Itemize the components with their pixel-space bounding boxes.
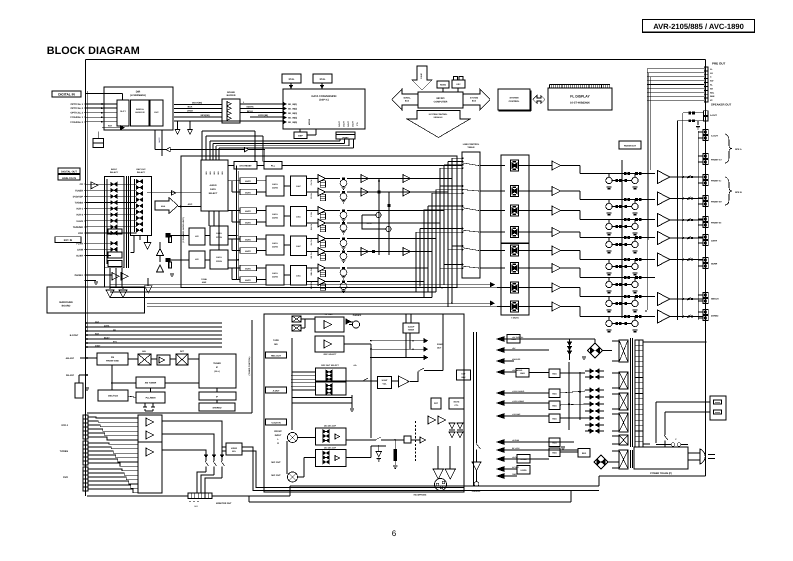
wire loopback right bbox=[249, 150, 265, 162]
wire matrix vertical 10 bbox=[415, 232, 417, 292]
jack video TV/DBS-1 bbox=[83, 441, 88, 445]
switch sel1-3 bbox=[111, 195, 114, 199]
buffer tuner in bbox=[172, 191, 176, 196]
wire lpf outs bbox=[228, 234, 237, 236]
wire channel hookup 3 bbox=[414, 210, 444, 212]
diode stack vertical bbox=[568, 342, 572, 346]
transformer secondary winding 4 bbox=[619, 413, 628, 432]
svg-text:(DSP IC): (DSP IC) bbox=[319, 99, 329, 102]
wire reg-diode links bbox=[560, 372, 585, 374]
svg-text:CHASSIS: CHASSIS bbox=[472, 490, 481, 493]
amp post-dac FL bbox=[318, 175, 326, 183]
wire audio bus 1 bbox=[110, 284, 494, 286]
core power trans bbox=[630, 450, 632, 468]
wire table stub 12 bbox=[452, 245, 463, 247]
svg-text:LRCK: LRCK bbox=[187, 110, 193, 113]
wire aout loop b bbox=[677, 120, 703, 122]
mixer 2 bbox=[176, 354, 188, 365]
wire relay row 5 bbox=[600, 259, 655, 261]
wire driver out 7 bbox=[561, 287, 580, 289]
wire zone riser bbox=[442, 314, 444, 371]
svg-text:CONV: CONV bbox=[216, 260, 223, 263]
terminal speaker group 2 bbox=[703, 154, 708, 159]
wire power rail +B SUB bbox=[504, 441, 569, 443]
svg-text:AM ANT: AM ANT bbox=[66, 357, 75, 360]
svg-text:SYSTEM CONTROL: SYSTEM CONTROL bbox=[429, 113, 448, 116]
svg-text:SPK B: SPK B bbox=[735, 191, 742, 194]
wire video route TV/DBS-1 bbox=[88, 443, 138, 444]
jack AC outlet top bbox=[704, 111, 709, 116]
wire bridge1 wires bbox=[603, 350, 613, 352]
wire table stub 5 bbox=[440, 185, 463, 187]
wire power rail +/-12V VIDEO bbox=[504, 402, 549, 404]
switch sel1-6 bbox=[111, 213, 114, 217]
wire analog input VCR-2 bbox=[85, 214, 87, 216]
plug AC inlet bbox=[688, 452, 700, 454]
svg-text:DAC: DAC bbox=[296, 185, 301, 188]
relay contact b row 2 bbox=[635, 198, 638, 201]
switch hp mode bbox=[346, 439, 375, 441]
wire eeprom link bbox=[299, 129, 301, 132]
wire control bus CE bbox=[86, 330, 88, 332]
tri down v1 bbox=[147, 236, 149, 243]
block regulator col 1 bbox=[549, 369, 560, 378]
buffer gate 3 bbox=[227, 111, 231, 116]
wire secondary leads 4 bbox=[612, 413, 619, 415]
amp post vol bbox=[399, 376, 409, 387]
block input selector SW2 bbox=[131, 177, 152, 236]
relay coil right row 3 bbox=[632, 223, 638, 229]
wire ctl bus 5 bbox=[202, 130, 255, 132]
terminal speaker group 4 bbox=[703, 196, 708, 201]
relay contact a row 8 bbox=[624, 315, 627, 318]
diode pair 3 bbox=[590, 388, 594, 392]
label audio out box bbox=[266, 387, 287, 393]
switch sel1-8 bbox=[111, 225, 114, 229]
arrow DIR reset bbox=[121, 126, 125, 130]
wire primary bottom lead bbox=[643, 443, 650, 445]
connector monitor strip bbox=[188, 493, 212, 499]
wire channel SBL a bbox=[307, 267, 318, 269]
arrow power rail AC DET bbox=[497, 467, 504, 472]
block PLL memory bbox=[136, 392, 165, 403]
label vaux box bbox=[266, 419, 287, 425]
amp driver row 3 bbox=[552, 206, 561, 215]
svg-text:SBACK: SBACK bbox=[711, 298, 719, 301]
diode pair 2 bbox=[590, 375, 594, 379]
svg-text:SDI: SDI bbox=[217, 171, 220, 175]
block DIR output latch bbox=[150, 100, 163, 126]
tri down v4 bbox=[147, 278, 149, 286]
svg-text:SBL: SBL bbox=[710, 91, 715, 94]
arrow control down big bbox=[407, 111, 470, 138]
wire relay lower row 1 bbox=[612, 180, 632, 182]
amp phono EQ bbox=[91, 182, 98, 189]
svg-text:REC OUT: REC OUT bbox=[271, 355, 282, 358]
relay coil right row 5 bbox=[632, 263, 638, 269]
wire ctl bus 4 bbox=[219, 147, 354, 149]
jack video TV/DBS-2 bbox=[83, 445, 88, 449]
svg-text:MUTE: MUTE bbox=[245, 221, 251, 224]
jack video DVD-4 bbox=[83, 479, 88, 483]
wire channel SL a bbox=[307, 238, 318, 240]
wire bridge2 wires bbox=[608, 461, 619, 463]
svg-text:CNTR: CNTR bbox=[711, 240, 717, 243]
arrow down hollow 2 bbox=[189, 121, 191, 129]
resistor r-hp bbox=[394, 449, 397, 461]
wire driver out 8 bbox=[561, 306, 580, 308]
wire trans bottom bbox=[599, 475, 706, 477]
block analog board frame bbox=[264, 314, 464, 492]
svg-text:MIC OUT: MIC OUT bbox=[271, 474, 281, 477]
svg-text:+/-12V VIDEO: +/-12V VIDEO bbox=[512, 400, 525, 403]
svg-text:SELECT: SELECT bbox=[209, 192, 218, 195]
model label box AVR-2105/885/AVC-1890 bbox=[643, 20, 755, 33]
block mute-if 1 bbox=[240, 178, 257, 184]
wire power rail +5V MICRO bbox=[504, 371, 516, 373]
wire recout feeds bbox=[292, 371, 316, 373]
mic circle 1 bbox=[288, 433, 298, 443]
arrow power rail +9V bbox=[497, 348, 504, 353]
jack video VCR-1-5 bbox=[83, 431, 88, 435]
svg-text:SERIAL: SERIAL bbox=[403, 97, 411, 100]
svg-text:STEREO: STEREO bbox=[213, 407, 222, 410]
svg-text:REMO: REMO bbox=[440, 84, 446, 87]
wire ps junction vertical b bbox=[579, 372, 581, 420]
block prot 2 bbox=[449, 398, 464, 409]
mute block row 2 bbox=[511, 186, 519, 197]
wire table stub 15 bbox=[440, 267, 463, 269]
wire DIR reset line bbox=[102, 127, 121, 129]
svg-text:(TUNER CONTROL): (TUNER CONTROL) bbox=[248, 356, 251, 375]
wire buffer to DSP row2 bbox=[240, 108, 283, 110]
wire control bus BUSY bbox=[86, 338, 88, 340]
jack pre-out FR bbox=[704, 71, 708, 75]
relay contact a row 7 bbox=[624, 295, 627, 298]
wire power out row 5 bbox=[671, 259, 704, 261]
svg-text:BUSY: BUSY bbox=[104, 336, 110, 339]
wire ctl drop right b bbox=[262, 136, 264, 162]
transformer secondary winding 1 bbox=[619, 340, 628, 362]
relay coil left row 3 bbox=[606, 223, 612, 229]
switch table 4 bbox=[463, 230, 479, 232]
crystal X202 bbox=[313, 74, 332, 83]
wire power rail +9V bbox=[504, 349, 549, 351]
svg-text:ANALOG IN: ANALOG IN bbox=[62, 177, 76, 180]
svg-text:MUTE: MUTE bbox=[245, 238, 251, 241]
transformer secondary winding 2 bbox=[619, 372, 628, 389]
attenuator SR bbox=[320, 254, 325, 261]
switch sel1-1 bbox=[111, 182, 114, 186]
wire bus to mute 8 bbox=[497, 306, 511, 308]
wire left border bbox=[85, 59, 87, 496]
wire pre-out line SBL bbox=[647, 91, 704, 93]
gnd aout bbox=[697, 121, 699, 125]
wire table to mute 1 bbox=[480, 165, 505, 167]
svg-text:SD_IN(3): SD_IN(3) bbox=[288, 112, 297, 115]
wire matrix vertical 8 bbox=[423, 210, 425, 298]
jack video TV/DBS-5 bbox=[83, 457, 88, 461]
svg-text:COAXIAL 2: COAXIAL 2 bbox=[70, 121, 83, 124]
switch post-vol bbox=[418, 370, 420, 372]
svg-text:C/SW: C/SW bbox=[77, 248, 84, 251]
svg-text:SLEEP: SLEEP bbox=[408, 326, 415, 329]
svg-text:INPUT: INPUT bbox=[111, 168, 118, 171]
jack pre-out SR bbox=[704, 87, 708, 91]
amp power output row 3 bbox=[658, 214, 670, 227]
jack lpf b bbox=[166, 258, 171, 262]
jack video DVD-5 bbox=[83, 483, 88, 487]
jack lpf a bbox=[166, 233, 171, 237]
svg-text:CDR: CDR bbox=[78, 232, 83, 235]
block lpf pair b1 bbox=[189, 251, 205, 268]
amp post-dac C bbox=[318, 207, 326, 215]
wire mid-frame to power bus a bbox=[464, 485, 599, 487]
buffer pair a bbox=[112, 273, 119, 281]
relay contact out row 4 bbox=[688, 237, 690, 239]
component antenna balun bbox=[75, 383, 83, 398]
svg-text:SR CH: SR CH bbox=[310, 252, 313, 259]
arrow power rail RY +12V bbox=[497, 448, 504, 453]
wire primary top lead bbox=[643, 341, 706, 343]
capacitor phono a bbox=[169, 237, 172, 243]
svg-text:DAC: DAC bbox=[296, 216, 301, 219]
svg-text:HP AMP: HP AMP bbox=[325, 313, 334, 316]
svg-text:FRONT END: FRONT END bbox=[106, 360, 119, 363]
wire tuner links bbox=[111, 365, 113, 390]
wire table stub 9 bbox=[424, 209, 463, 211]
switch chassis bbox=[476, 443, 478, 445]
svg-text:EXT. IN: EXT. IN bbox=[64, 239, 73, 242]
svg-text:TAPE/MD: TAPE/MD bbox=[73, 226, 84, 229]
svg-text:SDI: SDI bbox=[209, 171, 212, 175]
switch sel2-2 bbox=[136, 186, 139, 190]
jack video DVD-3 bbox=[83, 475, 88, 479]
buffer gate 2 bbox=[227, 106, 231, 111]
gnd phono bbox=[85, 280, 87, 282]
relay coil left row 8 bbox=[606, 320, 612, 326]
block surround board bbox=[47, 287, 145, 313]
svg-text:FRONT B+: FRONT B+ bbox=[711, 201, 723, 204]
relay contact b row 1 bbox=[635, 172, 638, 175]
wire relay row 1 bbox=[600, 173, 655, 175]
svg-text:SBL CH: SBL CH bbox=[310, 268, 313, 276]
wire channel C b bbox=[347, 210, 414, 212]
wire tuner audio in bbox=[147, 192, 201, 194]
wire left border inner bbox=[86, 91, 88, 330]
amp driver row 2 bbox=[552, 187, 561, 196]
wire table stub 11 bbox=[416, 231, 463, 233]
svg-text:MIC OUT: MIC OUT bbox=[271, 461, 281, 464]
wire vsel out 1 bbox=[242, 447, 599, 491]
transistor mute Q2 bbox=[340, 193, 347, 200]
relay contact lower row 4 bbox=[616, 243, 619, 246]
svg-text:REG: REG bbox=[552, 442, 557, 445]
wire ext input 3 bbox=[85, 255, 87, 257]
svg-text:+/-B AMP: +/-B AMP bbox=[512, 413, 521, 416]
jack video TV/DBS-6 bbox=[83, 461, 88, 465]
svg-text:REG: REG bbox=[552, 452, 557, 455]
wire channel hookup 7 bbox=[414, 267, 428, 269]
label rec out bbox=[266, 352, 287, 358]
svg-text:SBR: SBR bbox=[710, 95, 715, 98]
block audio data selector U401 bbox=[201, 160, 228, 211]
wire control bus RST bbox=[86, 334, 88, 336]
svg-text:AC DET: AC DET bbox=[512, 466, 520, 469]
svg-text:DOUT: DOUT bbox=[347, 120, 350, 126]
wire video out 1 bbox=[162, 421, 222, 455]
block DIR U101 outer bbox=[104, 87, 173, 130]
wire table stub 7 bbox=[432, 192, 463, 194]
transformer secondary winding 5 bbox=[619, 435, 628, 445]
wire secondary leads 5 bbox=[612, 435, 619, 437]
block mute-if 4 bbox=[240, 219, 257, 225]
wire inter-box bus a bbox=[126, 176, 128, 268]
buffer gate 1 bbox=[227, 102, 231, 107]
svg-text:SD_IN(5): SD_IN(5) bbox=[288, 121, 297, 124]
wire filt-dac link 0 bbox=[284, 185, 291, 187]
svg-text:XTAL: XTAL bbox=[288, 78, 295, 81]
block volume bbox=[378, 377, 392, 389]
relay contact a row 2 bbox=[624, 198, 627, 201]
svg-text:CD: CD bbox=[80, 183, 84, 186]
wire table stub 8 bbox=[428, 205, 463, 207]
svg-text:CONV: CONV bbox=[272, 276, 279, 279]
terminal speaker group 3 bbox=[703, 175, 708, 180]
wire video route VCR-1-6 bbox=[88, 437, 138, 440]
block mute-if 5 bbox=[240, 236, 257, 242]
wire inter-box bus b bbox=[128, 176, 130, 268]
wire video route VCR-1-3 bbox=[88, 425, 138, 427]
wire sleep wires bbox=[405, 314, 407, 323]
wire table stub 2 bbox=[448, 161, 463, 163]
wire ctl drop right a bbox=[254, 131, 256, 162]
svg-text:DIGITAL OUT: DIGITAL OUT bbox=[61, 170, 77, 173]
svg-text:REC SELECT: REC SELECT bbox=[324, 353, 337, 356]
svg-text:MUTE: MUTE bbox=[245, 210, 251, 213]
svg-text:RY +12V: RY +12V bbox=[512, 447, 520, 450]
svg-text:SD_IN(4): SD_IN(4) bbox=[288, 117, 297, 120]
wire bus to mute 7 bbox=[497, 287, 511, 289]
relay contact lower row 2 bbox=[616, 205, 619, 208]
component sel1 sub c bbox=[108, 261, 122, 267]
transformer core bbox=[630, 338, 632, 447]
transformer primary winding bbox=[635, 340, 643, 447]
wire audio bus 3 bbox=[110, 291, 436, 293]
wire mute to driver 3 bbox=[519, 210, 552, 212]
wire matrix vertical 9 bbox=[419, 229, 421, 287]
block lpf pair a2 bbox=[210, 226, 228, 245]
jack pre-out SW bbox=[704, 79, 708, 83]
svg-text:TUNER: TUNER bbox=[213, 362, 221, 365]
svg-text:SURR: SURR bbox=[711, 263, 718, 266]
block power trans bbox=[634, 447, 688, 469]
svg-text:SYSTEM: SYSTEM bbox=[510, 97, 519, 100]
amp line buffer 3 bbox=[361, 248, 369, 256]
relay coil left row 4 bbox=[606, 241, 612, 247]
attenuator SL bbox=[320, 241, 325, 248]
wire table to mute 6 bbox=[480, 267, 505, 269]
svg-text:SLCT: SLCT bbox=[120, 110, 126, 113]
wire table stub 14 bbox=[444, 264, 463, 266]
component sel1 sub a bbox=[108, 229, 122, 234]
mute block row 8 bbox=[511, 301, 519, 312]
arrow power-supply down bbox=[412, 66, 432, 90]
svg-text:CONV: CONV bbox=[272, 187, 279, 190]
wire channel hookup 4 bbox=[414, 222, 440, 224]
svg-text:FM: FM bbox=[111, 356, 114, 359]
svg-text:VDD/VSS: VDD/VSS bbox=[512, 358, 521, 361]
jack headphone main bbox=[435, 479, 447, 491]
wire channel FR b bbox=[347, 191, 414, 193]
wire channel SW b bbox=[347, 222, 414, 224]
amp up v3 bbox=[157, 265, 164, 272]
wire channel hookup 8 bbox=[414, 281, 424, 283]
wire recout to vol bbox=[346, 380, 378, 382]
svg-text:+/-15V AUDIO: +/-15V AUDIO bbox=[512, 390, 525, 393]
switch video 2 bbox=[213, 455, 215, 460]
svg-text:REG: REG bbox=[582, 452, 587, 455]
svg-text:SD_IN(1): SD_IN(1) bbox=[288, 103, 297, 106]
attenuator C bbox=[320, 213, 325, 220]
svg-text:VIDEO: VIDEO bbox=[231, 447, 238, 450]
svg-text:FR: FR bbox=[710, 72, 713, 75]
attenuator SBR bbox=[320, 284, 325, 291]
svg-text:REG: REG bbox=[511, 338, 516, 341]
transistor mute Q5 bbox=[340, 240, 347, 247]
wire analog input CD bbox=[85, 183, 87, 185]
svg-text:6: 6 bbox=[392, 529, 397, 538]
wire ps junction vertical a bbox=[568, 362, 570, 430]
switch sel2-3 bbox=[136, 192, 139, 196]
wire video route DVD-6 bbox=[88, 489, 138, 493]
wire video route DVD-3 bbox=[88, 477, 138, 480]
transistor mute Q1 bbox=[340, 180, 347, 187]
wire pre-tap verticals bbox=[645, 310, 647, 312]
svg-text:FRONT A-: FRONT A- bbox=[711, 180, 722, 183]
svg-text:BUFFER: BUFFER bbox=[227, 94, 236, 97]
gnd power a bbox=[561, 446, 565, 448]
attenuator SW bbox=[320, 225, 325, 232]
svg-text:BLK: BLK bbox=[461, 376, 466, 379]
wire power rail +/-B AMP bbox=[504, 415, 549, 417]
mute block row 5 bbox=[511, 245, 519, 256]
svg-text:MUTE: MUTE bbox=[245, 250, 251, 253]
block sleep timer bbox=[403, 323, 419, 333]
svg-text:TIMER: TIMER bbox=[408, 329, 415, 332]
svg-text:A.OUT: A.OUT bbox=[711, 135, 718, 138]
jack AC outlet bbox=[710, 396, 726, 420]
mute block row 3 bbox=[511, 205, 519, 216]
wire channel SR a bbox=[307, 251, 318, 253]
svg-text:C CH: C CH bbox=[310, 212, 313, 217]
transformer secondary winding 6 bbox=[619, 450, 628, 469]
amp post-dac SBL bbox=[318, 264, 326, 272]
label ANALOG IN bbox=[58, 175, 80, 181]
wire channel hookup 1 bbox=[414, 178, 452, 180]
svg-text:DIGITAL IN: DIGITAL IN bbox=[58, 93, 75, 97]
block stereo demod bbox=[199, 403, 235, 411]
amp line buffer 5 bbox=[403, 188, 411, 196]
wire vert jumper 1 bbox=[378, 179, 380, 256]
wire aout loop a bbox=[683, 112, 704, 114]
wire phono in bbox=[85, 274, 87, 276]
wire driver out 2 bbox=[561, 190, 580, 192]
block microcomputer U301 bbox=[418, 92, 463, 108]
svg-text:FRONT A+: FRONT A+ bbox=[711, 159, 723, 162]
wire relay row 8 bbox=[600, 316, 655, 318]
wire video route DVD-5 bbox=[88, 485, 138, 488]
